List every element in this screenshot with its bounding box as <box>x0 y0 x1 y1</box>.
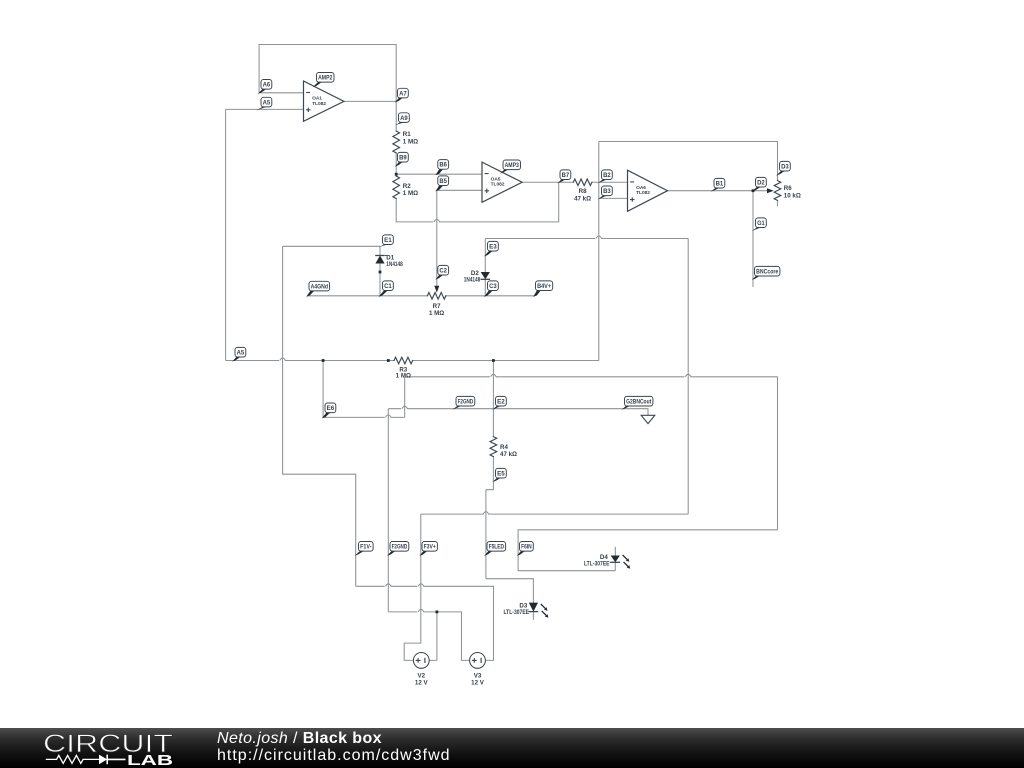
wire: E1/F1V- branch vertical with hop <box>283 246 356 586</box>
svg-text:R2: R2 <box>403 183 411 190</box>
svg-text:B5: B5 <box>439 178 447 185</box>
wire: OA6 output to R6 wiper <box>668 190 769 192</box>
voltage source V2 12V <box>413 653 429 669</box>
svg-text:B2: B2 <box>603 172 611 179</box>
svg-text:BNCcore: BNCcore <box>756 268 779 275</box>
node B3 <box>597 196 606 200</box>
node C1 <box>379 291 388 297</box>
wire: OA1 inverting input <box>259 92 303 94</box>
LED D4 LTL-307EE <box>611 556 620 563</box>
node A4GNd <box>306 291 314 297</box>
node F1V- <box>354 551 363 556</box>
svg-text:G2BNCout: G2BNCout <box>626 398 652 405</box>
node F5LED <box>484 551 492 556</box>
node B6 <box>435 169 443 175</box>
node A5 <box>256 107 266 111</box>
node G2BNCout flag <box>641 415 655 423</box>
node C3 <box>484 291 493 297</box>
svg-text:12 V: 12 V <box>415 680 429 687</box>
node B2 <box>597 180 606 184</box>
node G1 <box>752 228 761 232</box>
svg-text:1N4148: 1N4148 <box>464 277 481 284</box>
svg-text:F6IN: F6IN <box>521 544 532 551</box>
resistor R3 <box>394 357 413 364</box>
node B9 <box>395 162 403 167</box>
svg-text:E1: E1 <box>384 237 392 244</box>
wire: E1 horizontal to D1 <box>283 245 380 247</box>
wire: E3 horizontal with hop over B2 bus <box>485 236 688 239</box>
svg-text:OA5: OA5 <box>491 176 501 182</box>
wire: D1 vertical <box>379 246 381 295</box>
svg-text:B1: B1 <box>716 180 724 187</box>
svg-text:E5: E5 <box>497 470 505 477</box>
wire: V2 negative branch <box>429 612 437 661</box>
wire: E6 long horizontal to right rect <box>405 374 778 377</box>
node BNCcore <box>752 276 760 280</box>
svg-text:1N4148: 1N4148 <box>386 261 403 268</box>
node E6 <box>322 413 331 419</box>
svg-text:LTL-307EE: LTL-307EE <box>584 561 610 568</box>
svg-text:1 MΩ: 1 MΩ <box>396 372 411 379</box>
svg-text:1 MΩ: 1 MΩ <box>403 190 418 197</box>
wire: C1 row A4GNd to R7 <box>308 295 428 297</box>
node A9 <box>395 122 404 125</box>
wire: E6 riser <box>404 377 406 418</box>
diode D2 1N4148 <box>481 272 490 279</box>
svg-text:C3: C3 <box>489 283 497 290</box>
node E3 <box>484 251 493 257</box>
wire: A5 row to R3 <box>226 358 394 361</box>
svg-text:A7: A7 <box>399 90 407 97</box>
wire: B3 to OA6 + input <box>599 197 628 199</box>
resistor R2 <box>393 176 400 199</box>
svg-text:R4: R4 <box>500 444 508 451</box>
footer title <box>217 730 382 748</box>
wire: C2 vertical to R7 wiper <box>436 190 438 287</box>
svg-text:47 kΩ: 47 kΩ <box>574 195 591 202</box>
wire: A5 input to OA1 + <box>226 108 304 110</box>
wire: F2GND vertical <box>387 409 389 612</box>
svg-text:A9: A9 <box>400 115 408 122</box>
svg-text:10 kΩ: 10 kΩ <box>784 192 801 199</box>
svg-text:F2GND: F2GND <box>392 544 408 551</box>
node F2GND <box>452 406 461 410</box>
wire: D3 bottom stub <box>532 612 534 620</box>
svg-text:1 MΩ: 1 MΩ <box>403 138 418 145</box>
svg-text:E6: E6 <box>327 405 335 412</box>
wire: R7 to C3 and B4V+ <box>446 295 535 297</box>
R6 wiper arrow <box>767 188 774 193</box>
node A7 <box>395 98 403 103</box>
svg-text:R6: R6 <box>784 185 792 192</box>
svg-text:D3: D3 <box>781 163 789 170</box>
node E1 <box>379 245 388 248</box>
wire: E3 vertical through D2 <box>484 239 486 296</box>
node B5 <box>435 186 443 192</box>
svg-text:A5: A5 <box>263 99 271 106</box>
wire: R8 to B2 node and OA6 inverting input <box>592 181 628 183</box>
svg-text:E3: E3 <box>489 243 497 250</box>
svg-text:B6: B6 <box>439 162 447 169</box>
svg-text:1 MΩ: 1 MΩ <box>429 310 444 317</box>
svg-text:R1: R1 <box>403 131 411 138</box>
wire: R4 to E5 jog <box>486 457 494 490</box>
resistor R8 <box>573 179 592 186</box>
wire: F5LED to D3 <box>486 579 534 603</box>
wire: R3 to B3 vertical <box>413 360 599 362</box>
op-amp OA6 TL082 <box>628 170 668 211</box>
node A5 (bottom) <box>232 357 240 362</box>
diode D1 1N4148 <box>375 256 384 264</box>
svg-text:AMP2: AMP2 <box>318 75 333 82</box>
svg-text:C2: C2 <box>439 267 447 274</box>
voltage source V3 12V <box>470 653 486 669</box>
svg-text:A4GNd: A4GNd <box>311 283 328 290</box>
svg-text:D2: D2 <box>757 179 765 186</box>
svg-text:12 V: 12 V <box>471 680 485 687</box>
LED D3 LTL-307EE <box>529 603 538 612</box>
wire: B2/B3 vertical bus <box>598 142 600 361</box>
wire: F1V- bottom to V3- <box>356 584 494 661</box>
svg-text:V3: V3 <box>474 673 482 680</box>
svg-text:R7: R7 <box>433 303 441 310</box>
svg-text:TL082: TL082 <box>636 190 650 196</box>
wire: E3 net to F3V+ with hop over F5LED vert <box>421 512 688 515</box>
svg-text:OA1: OA1 <box>312 96 322 102</box>
svg-text:LAB: LAB <box>127 753 173 768</box>
label AMP2 <box>313 82 322 87</box>
svg-text:AMP3: AMP3 <box>505 162 520 169</box>
footer url <box>217 747 451 765</box>
wire: F2GND bottom row to V2-/V3+ <box>388 609 469 660</box>
wire: OA1 feedback loop top <box>259 45 396 132</box>
svg-text:E2: E2 <box>497 398 505 405</box>
svg-text:F1V-: F1V- <box>360 544 371 551</box>
node B4V+ <box>533 291 541 297</box>
node E2 junction <box>492 359 495 362</box>
wire: R1-R2 link <box>395 153 397 176</box>
wire: R2 bottom to OA5 feedback <box>396 182 559 222</box>
dot on D1 wire <box>379 271 382 274</box>
op-amp OA5 TL082 <box>482 162 522 202</box>
wire: E6 drop from A5 row <box>322 361 324 418</box>
node F3V+ <box>419 551 427 556</box>
wire: E6 horizontal with hop over F2GND vert <box>323 415 405 418</box>
node B1 <box>711 188 720 192</box>
node D2 <box>752 187 761 192</box>
wire: R6 bottom stub <box>777 200 779 206</box>
svg-text:V2: V2 <box>418 673 426 680</box>
node D2 junction <box>752 189 755 192</box>
junction dot on A5 row <box>387 359 390 362</box>
svg-text:A6: A6 <box>263 82 271 89</box>
svg-text:B7: B7 <box>562 172 570 179</box>
svg-text:47 kΩ: 47 kΩ <box>500 451 517 458</box>
node E5 <box>492 478 501 482</box>
wire: E2 vertical to R4 <box>492 361 494 437</box>
wire: E5/F5LED vertical <box>485 490 487 579</box>
svg-text:B9: B9 <box>399 154 407 161</box>
wire: OA1 output to A7 <box>344 100 396 102</box>
svg-text:R8: R8 <box>579 188 587 195</box>
node E2 <box>492 406 501 410</box>
svg-text:OA6: OA6 <box>636 185 646 191</box>
wire: F2GND horizontal to ground flag <box>388 406 648 415</box>
wire: node B6 to OA5 inverting input <box>396 173 482 175</box>
wire: G1/BNCcore vertical <box>752 191 754 287</box>
wire: E3 net right vertical <box>687 239 689 515</box>
wire: B5 to OA5 + input <box>437 189 482 191</box>
wire: right rect down and to F6IN <box>518 377 777 571</box>
wire: D4 branch vertical <box>614 547 616 571</box>
svg-text:B4V+: B4V+ <box>537 283 551 290</box>
svg-text:TL082: TL082 <box>491 182 505 188</box>
wire: A5 left vertical <box>225 109 227 360</box>
wire: F3V+ vertical <box>404 514 421 660</box>
resistor R4 <box>490 437 497 457</box>
node E6 junction <box>322 359 325 362</box>
node D3 <box>776 171 785 176</box>
svg-text:A5: A5 <box>237 349 245 356</box>
potentiometer R7 <box>427 293 445 300</box>
wire: top rect to R6 <box>599 142 778 181</box>
svg-text:G1: G1 <box>757 220 765 227</box>
R7 wiper arrow <box>434 286 439 293</box>
node B9/B6 junction <box>395 173 398 176</box>
node B7 <box>557 180 565 184</box>
svg-text:F2GND: F2GND <box>458 398 474 405</box>
junction V2- branch <box>436 611 439 614</box>
svg-text:F3V+: F3V+ <box>424 544 436 551</box>
resistor R1 <box>393 131 400 153</box>
node F6IN <box>517 551 525 556</box>
svg-text:F5LED: F5LED <box>489 544 505 551</box>
svg-text:C1: C1 <box>384 283 392 290</box>
node A6 <box>258 89 267 94</box>
svg-text:TL082: TL082 <box>312 101 326 107</box>
op-amp OA1 TL082 <box>304 81 344 121</box>
label AMP3 <box>500 170 508 174</box>
svg-text:LTL-307EE: LTL-307EE <box>504 609 530 616</box>
node G2BNCout <box>622 406 630 410</box>
wire: OA5 output to R8 <box>522 181 573 183</box>
CircuitLab logo <box>0 728 200 768</box>
node F2GND (bottom) <box>387 551 395 556</box>
potentiometer R6 <box>774 181 781 201</box>
node C2 <box>435 275 443 280</box>
svg-text:B3: B3 <box>603 188 611 195</box>
